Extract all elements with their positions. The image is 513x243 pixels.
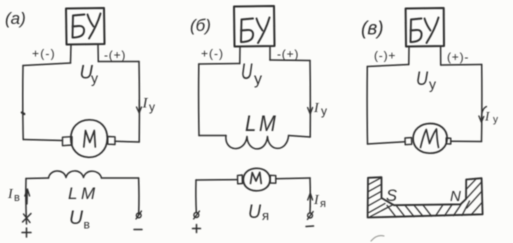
svg-text:I: I xyxy=(484,109,490,124)
field winding LM (a) : left lead wire xyxy=(26,177,49,180)
label Uy (v) xyxy=(416,68,436,92)
svg-text:у: у xyxy=(149,100,155,114)
motor M1 left brush xyxy=(63,137,73,146)
control unit BU box (figure a) xyxy=(66,8,105,45)
svg-text:в: в xyxy=(14,192,20,204)
svg-text:у: у xyxy=(254,71,262,88)
terminal slash left (a) xyxy=(23,214,32,223)
BU label (figure b) xyxy=(241,18,270,44)
label LM (b) xyxy=(245,112,276,136)
wire: left vertical (a) xyxy=(22,66,24,140)
svg-text:в: в xyxy=(84,218,90,232)
svg-text:M: M xyxy=(81,184,96,203)
wire: right stub from BU (v) xyxy=(440,47,442,66)
label Uya (b) xyxy=(248,201,269,223)
svg-text:M: M xyxy=(259,112,276,136)
svg-text:U: U xyxy=(248,201,262,223)
wire: top-left horizontal (b) xyxy=(199,63,240,66)
motor M2 body xyxy=(243,168,270,191)
svg-text:L: L xyxy=(245,112,256,136)
label Uy (b) xyxy=(241,61,262,88)
pole label S (v) xyxy=(386,187,397,205)
motor M1 body xyxy=(71,120,108,158)
wire: left terminal drop (b) xyxy=(195,180,197,213)
node label +(-) (a) xyxy=(32,47,56,61)
svg-text:(-)+: (-)+ xyxy=(374,49,396,63)
svg-text:L: L xyxy=(68,184,77,203)
terminal circle left (b) xyxy=(194,211,200,219)
motor M1 letter M xyxy=(84,131,96,148)
svg-text:у: у xyxy=(429,76,436,92)
terminal circle right (b) xyxy=(307,212,313,220)
stray pen mark bottom xyxy=(371,236,384,241)
wire: bottom-right to motor brush (a) xyxy=(115,140,139,143)
magnet left pole hatching (v) xyxy=(369,178,393,217)
wire: left vertical (b) xyxy=(198,64,200,136)
svg-text:у: у xyxy=(493,115,498,126)
wire: left terminal drop (a) xyxy=(25,179,28,225)
current arrow Iy (a) xyxy=(137,100,142,113)
node label -(+) (a) xyxy=(104,48,126,62)
label Uy (a) xyxy=(80,62,99,86)
inductor LM coil (a) xyxy=(49,171,102,178)
control unit BU box (figure v) xyxy=(406,8,444,47)
svg-text:I: I xyxy=(142,96,149,112)
svg-text:-(+): -(+) xyxy=(104,48,126,62)
current arrow Iy (v) xyxy=(479,107,487,123)
wire: left stub from BU (a) xyxy=(70,45,73,64)
wire: right terminal drop (b) xyxy=(309,178,311,213)
field winding LM (a) : right lead wire xyxy=(102,177,139,179)
node label (-)+ (v) xyxy=(374,49,396,63)
wire: bottom-right horizontal (b) xyxy=(289,136,311,138)
junction blob on left vertical (a) xyxy=(22,113,25,115)
svg-text:(a): (a) xyxy=(5,9,26,28)
minus terminal label (b) xyxy=(306,225,314,228)
motor M3 body xyxy=(413,123,447,153)
svg-text:я: я xyxy=(262,208,269,223)
motor M2 letter M xyxy=(251,172,262,183)
wire: top-right horizontal (b) xyxy=(270,59,310,62)
svg-text:(в): (в) xyxy=(361,19,384,40)
wire: right terminal drop (a) xyxy=(138,178,140,215)
figure label (a) xyxy=(5,9,26,28)
wire: left vertical (v) xyxy=(366,67,368,145)
motor M3 right brush xyxy=(446,138,451,144)
motor M2 left brush xyxy=(238,175,243,184)
terminal circle right (a) xyxy=(136,211,142,219)
wire: top-right horizontal (v) xyxy=(441,64,482,67)
svg-text:+(-): +(-) xyxy=(32,47,56,61)
node label -(+) (b) xyxy=(277,47,299,61)
current arrow Iy (b) xyxy=(308,102,313,114)
wire: right horizontal to motor (b) xyxy=(276,177,310,180)
wire: left stub from BU (b) xyxy=(239,47,241,64)
svg-text:у: у xyxy=(91,70,98,86)
svg-text:U: U xyxy=(69,208,83,229)
pole label N (v) xyxy=(450,188,461,205)
motor M3 left brush xyxy=(405,138,412,145)
wire: right vertical (b) xyxy=(309,61,311,138)
control unit BU box (figure b) xyxy=(234,6,275,47)
magnet bar left hatching (v) xyxy=(387,205,432,217)
plus terminal label (a) xyxy=(22,228,31,237)
motor M1 right brush xyxy=(108,137,115,145)
svg-text:(б): (б) xyxy=(190,16,211,35)
svg-text:у: у xyxy=(321,104,327,118)
label Iv (a) xyxy=(7,187,20,204)
svg-text:+(-): +(-) xyxy=(201,47,224,61)
wire: bottom-left to motor (v) xyxy=(368,142,406,144)
wire: top-right horizontal (a) xyxy=(98,61,139,63)
wire: bottom-right to motor (v) xyxy=(451,140,482,142)
wire: bottom-left horizontal (b) xyxy=(199,135,226,137)
wire: right vertical (a) xyxy=(138,62,140,143)
svg-text:S: S xyxy=(386,187,397,205)
svg-text:я: я xyxy=(320,198,326,210)
svg-text:N: N xyxy=(450,188,461,205)
figure label (b) xyxy=(190,16,211,35)
svg-text:(+)-: (+)- xyxy=(447,50,469,64)
node label +(-) (b) xyxy=(201,47,224,61)
magnet yoke outline (v) xyxy=(368,177,483,217)
plus terminal label (b) xyxy=(193,225,201,233)
magnet bar right hatching (v) xyxy=(436,201,470,216)
svg-text:U: U xyxy=(241,61,253,85)
wire: left horizontal to motor (b) xyxy=(196,179,238,181)
wire: left stub from BU (v) xyxy=(408,47,410,65)
label Iy (b) xyxy=(313,101,327,118)
current arrow Iv (a) xyxy=(25,189,30,204)
wire: right stub from BU (b) xyxy=(269,47,271,61)
wire: right vertical (v) xyxy=(481,65,483,142)
BU label (figure a) xyxy=(73,14,101,39)
motor M3 letter M xyxy=(421,129,439,148)
wire: top-left horizontal (v) xyxy=(367,65,409,67)
label Iy (v) xyxy=(484,109,498,126)
minus terminal label (a) xyxy=(134,229,142,231)
wire: bottom-left to motor brush (a) xyxy=(23,140,62,141)
svg-text:-(+): -(+) xyxy=(277,47,299,61)
label Uv (a) xyxy=(69,208,90,231)
current arrow Iya (b) xyxy=(308,193,313,207)
BU label (figure v) xyxy=(411,18,439,44)
motor M2 right brush xyxy=(270,175,276,183)
figure label (v) xyxy=(361,19,384,40)
node label (+)- (v) xyxy=(447,50,469,64)
magnet right pole hatching (v) xyxy=(467,179,483,216)
label Iya (b) xyxy=(313,193,326,210)
svg-text:U: U xyxy=(416,68,428,89)
wire: right stub from BU (a) xyxy=(97,45,99,62)
label LM (a) xyxy=(68,184,96,203)
label Iy (a) xyxy=(142,96,156,115)
inductor LM coil (b) xyxy=(226,136,289,149)
wire: top-left horizontal (a) xyxy=(23,63,71,66)
